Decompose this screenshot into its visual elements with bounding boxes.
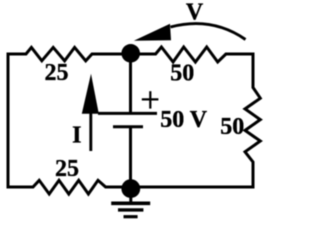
plus sign of source [142, 91, 159, 108]
svg-text:50: 50 [170, 61, 194, 87]
svg-text:V: V [186, 0, 204, 26]
node B (bottom junction) [121, 179, 140, 198]
current arrow I stem [89, 112, 92, 151]
battery V1 top plate [98, 112, 157, 115]
battery V1 bottom plate [113, 125, 143, 128]
ground stem [129, 195, 132, 202]
current arrow I head [82, 74, 99, 114]
svg-text:25: 25 [45, 60, 69, 86]
svg-text:I: I [72, 123, 81, 149]
ground bar 1 [111, 202, 150, 206]
svg-text:50: 50 [220, 114, 244, 140]
wire bottom right segment [131, 186, 253, 189]
resistor R4 25 (bottom left) [8, 180, 130, 194]
resistor R2 50 (top right) [131, 47, 253, 62]
ground bar 2 [118, 208, 143, 211]
svg-text:25: 25 [55, 156, 79, 182]
svg-text:50 V: 50 V [160, 107, 208, 133]
wire middle branch upper [129, 54, 132, 113]
resistor R3 50 (right vertical) [245, 54, 260, 187]
wire left vertical side [7, 54, 10, 187]
wire middle branch lower [129, 127, 132, 189]
ground bar 3 [124, 215, 138, 218]
voltage arc arrow (curve) [171, 24, 246, 40]
resistor R1 25 (top left) [8, 47, 130, 60]
node A (top junction) [121, 44, 140, 63]
voltage arc arrowhead [134, 24, 171, 41]
